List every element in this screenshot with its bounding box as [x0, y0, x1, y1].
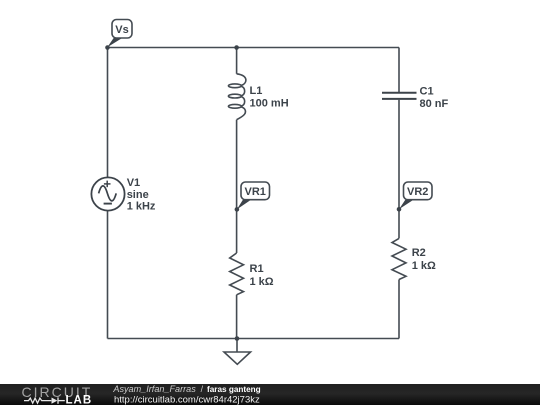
svg-text:R1: R1	[250, 263, 264, 275]
svg-text:http://circuitlab.com/cwr84r42: http://circuitlab.com/cwr84r42j73kz	[114, 395, 260, 405]
svg-text:VR2: VR2	[407, 186, 428, 198]
resistor R1	[230, 253, 244, 295]
svg-text:100 mH: 100 mH	[250, 98, 289, 110]
svg-text:1 kΩ: 1 kΩ	[412, 260, 436, 272]
wire: right branch bottom (R2 to bottom rail)	[398, 280, 400, 339]
wire: bottom rail	[108, 338, 400, 340]
ground	[224, 339, 251, 365]
svg-text:L1: L1	[250, 85, 263, 97]
wire: right branch top (corner to C1)	[398, 48, 400, 93]
inductor L1	[228, 74, 246, 120]
svg-text:80 nF: 80 nF	[420, 98, 449, 110]
wire: middle branch mid (L1 to R1)	[236, 120, 238, 253]
svg-text:1 kΩ: 1 kΩ	[250, 276, 274, 288]
svg-text:1 kHz: 1 kHz	[127, 201, 156, 213]
node Vs flag	[107, 20, 132, 48]
resistor R2	[392, 238, 406, 279]
node VR2 flag	[397, 182, 432, 212]
node VR1 flag	[235, 182, 270, 212]
capacitor C1	[382, 93, 417, 99]
footer bar	[0, 384, 540, 405]
svg-text:Asyam_Irfan_Farras/faras gante: Asyam_Irfan_Farras/faras ganteng	[112, 384, 260, 394]
svg-text:C1: C1	[420, 86, 434, 98]
svg-text:V1: V1	[127, 177, 140, 189]
junction: bottom rail to ground	[235, 336, 240, 341]
wire: left rail upper (Vs node to V1 top)	[107, 48, 109, 178]
wire: middle branch top (node to L1)	[236, 48, 238, 74]
junction: node Vs at top-left corner	[105, 45, 110, 50]
attribution text	[112, 384, 260, 405]
wire: middle branch bottom (R1 to bottom rail)	[236, 295, 238, 339]
CircuitLab logo	[22, 384, 93, 405]
svg-text:LAB: LAB	[66, 395, 93, 405]
wire: top rail	[108, 47, 400, 49]
wire: left rail lower (V1 bottom to bottom rail)	[107, 211, 109, 339]
voltage source V1	[91, 177, 124, 210]
svg-text:R2: R2	[412, 247, 426, 259]
svg-text:Vs: Vs	[115, 24, 128, 36]
svg-text:VR1: VR1	[244, 186, 265, 198]
junction: top rail to L1 branch	[234, 45, 239, 50]
wire: right branch mid (C1 to R2)	[398, 100, 400, 239]
svg-text:sine: sine	[127, 189, 149, 201]
